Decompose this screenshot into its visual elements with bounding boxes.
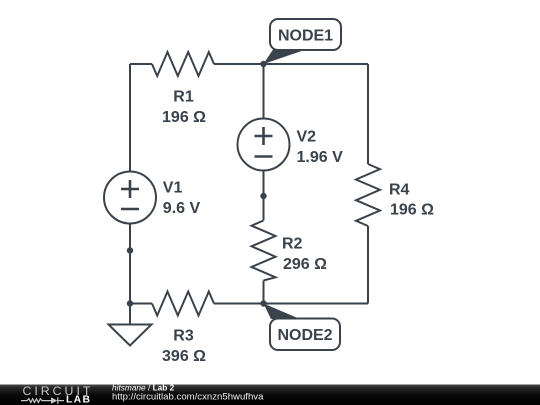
wire top left segment [130,63,152,65]
wire V1 bottom lead [129,224,131,304]
svg-text:R2: R2 [282,235,303,252]
voltage source V1 [104,172,156,224]
wire V2 top lead [263,64,265,119]
wire left rail [129,64,131,172]
wire bottom right segment [214,303,368,305]
svg-text:196 Ω: 196 Ω [390,202,434,219]
svg-text:LAB: LAB [66,395,91,405]
svg-text:http://circuitlab.com/cxnzn5hw: http://circuitlab.com/cxnzn5hwufhva [112,391,264,402]
resistor R1 [152,52,214,76]
svg-text:R1: R1 [173,89,194,106]
wire V2 to R2 [263,171,265,221]
node NODE1 [264,19,342,64]
wire R2 bottom lead [263,281,265,304]
wire top right segment [214,63,368,65]
CircuitLab logo circuit glyph [21,397,64,404]
svg-text:396 Ω: 396 Ω [162,348,206,365]
svg-text:9.6 V: 9.6 V [163,200,201,217]
svg-text:V1: V1 [163,180,183,197]
ground [109,304,152,346]
svg-text:196 Ω: 196 Ω [162,109,206,126]
wire right rail bottom [367,226,369,304]
svg-text:R4: R4 [389,182,410,199]
svg-text:V2: V2 [297,128,317,145]
svg-text:R3: R3 [173,328,194,345]
svg-text:NODE1: NODE1 [278,27,333,44]
resistor R2 [252,221,276,281]
resistor R4 [356,164,380,226]
junction V1 bottom dot [127,247,133,253]
svg-text:296 Ω: 296 Ω [283,256,327,273]
wire bottom left segment [130,303,152,305]
junction NODE2 dot [260,300,266,306]
voltage source V2 [238,119,290,171]
node NODE2 [264,304,341,351]
junction ground node dot [127,300,133,306]
footer watermark bar [0,385,540,405]
resistor R3 [152,292,214,316]
junction V2-R2 dot [260,193,266,199]
svg-text:1.96 V: 1.96 V [297,149,344,166]
junction NODE1 dot [260,61,266,67]
svg-text:NODE2: NODE2 [277,327,332,344]
wire right rail top [367,64,369,164]
